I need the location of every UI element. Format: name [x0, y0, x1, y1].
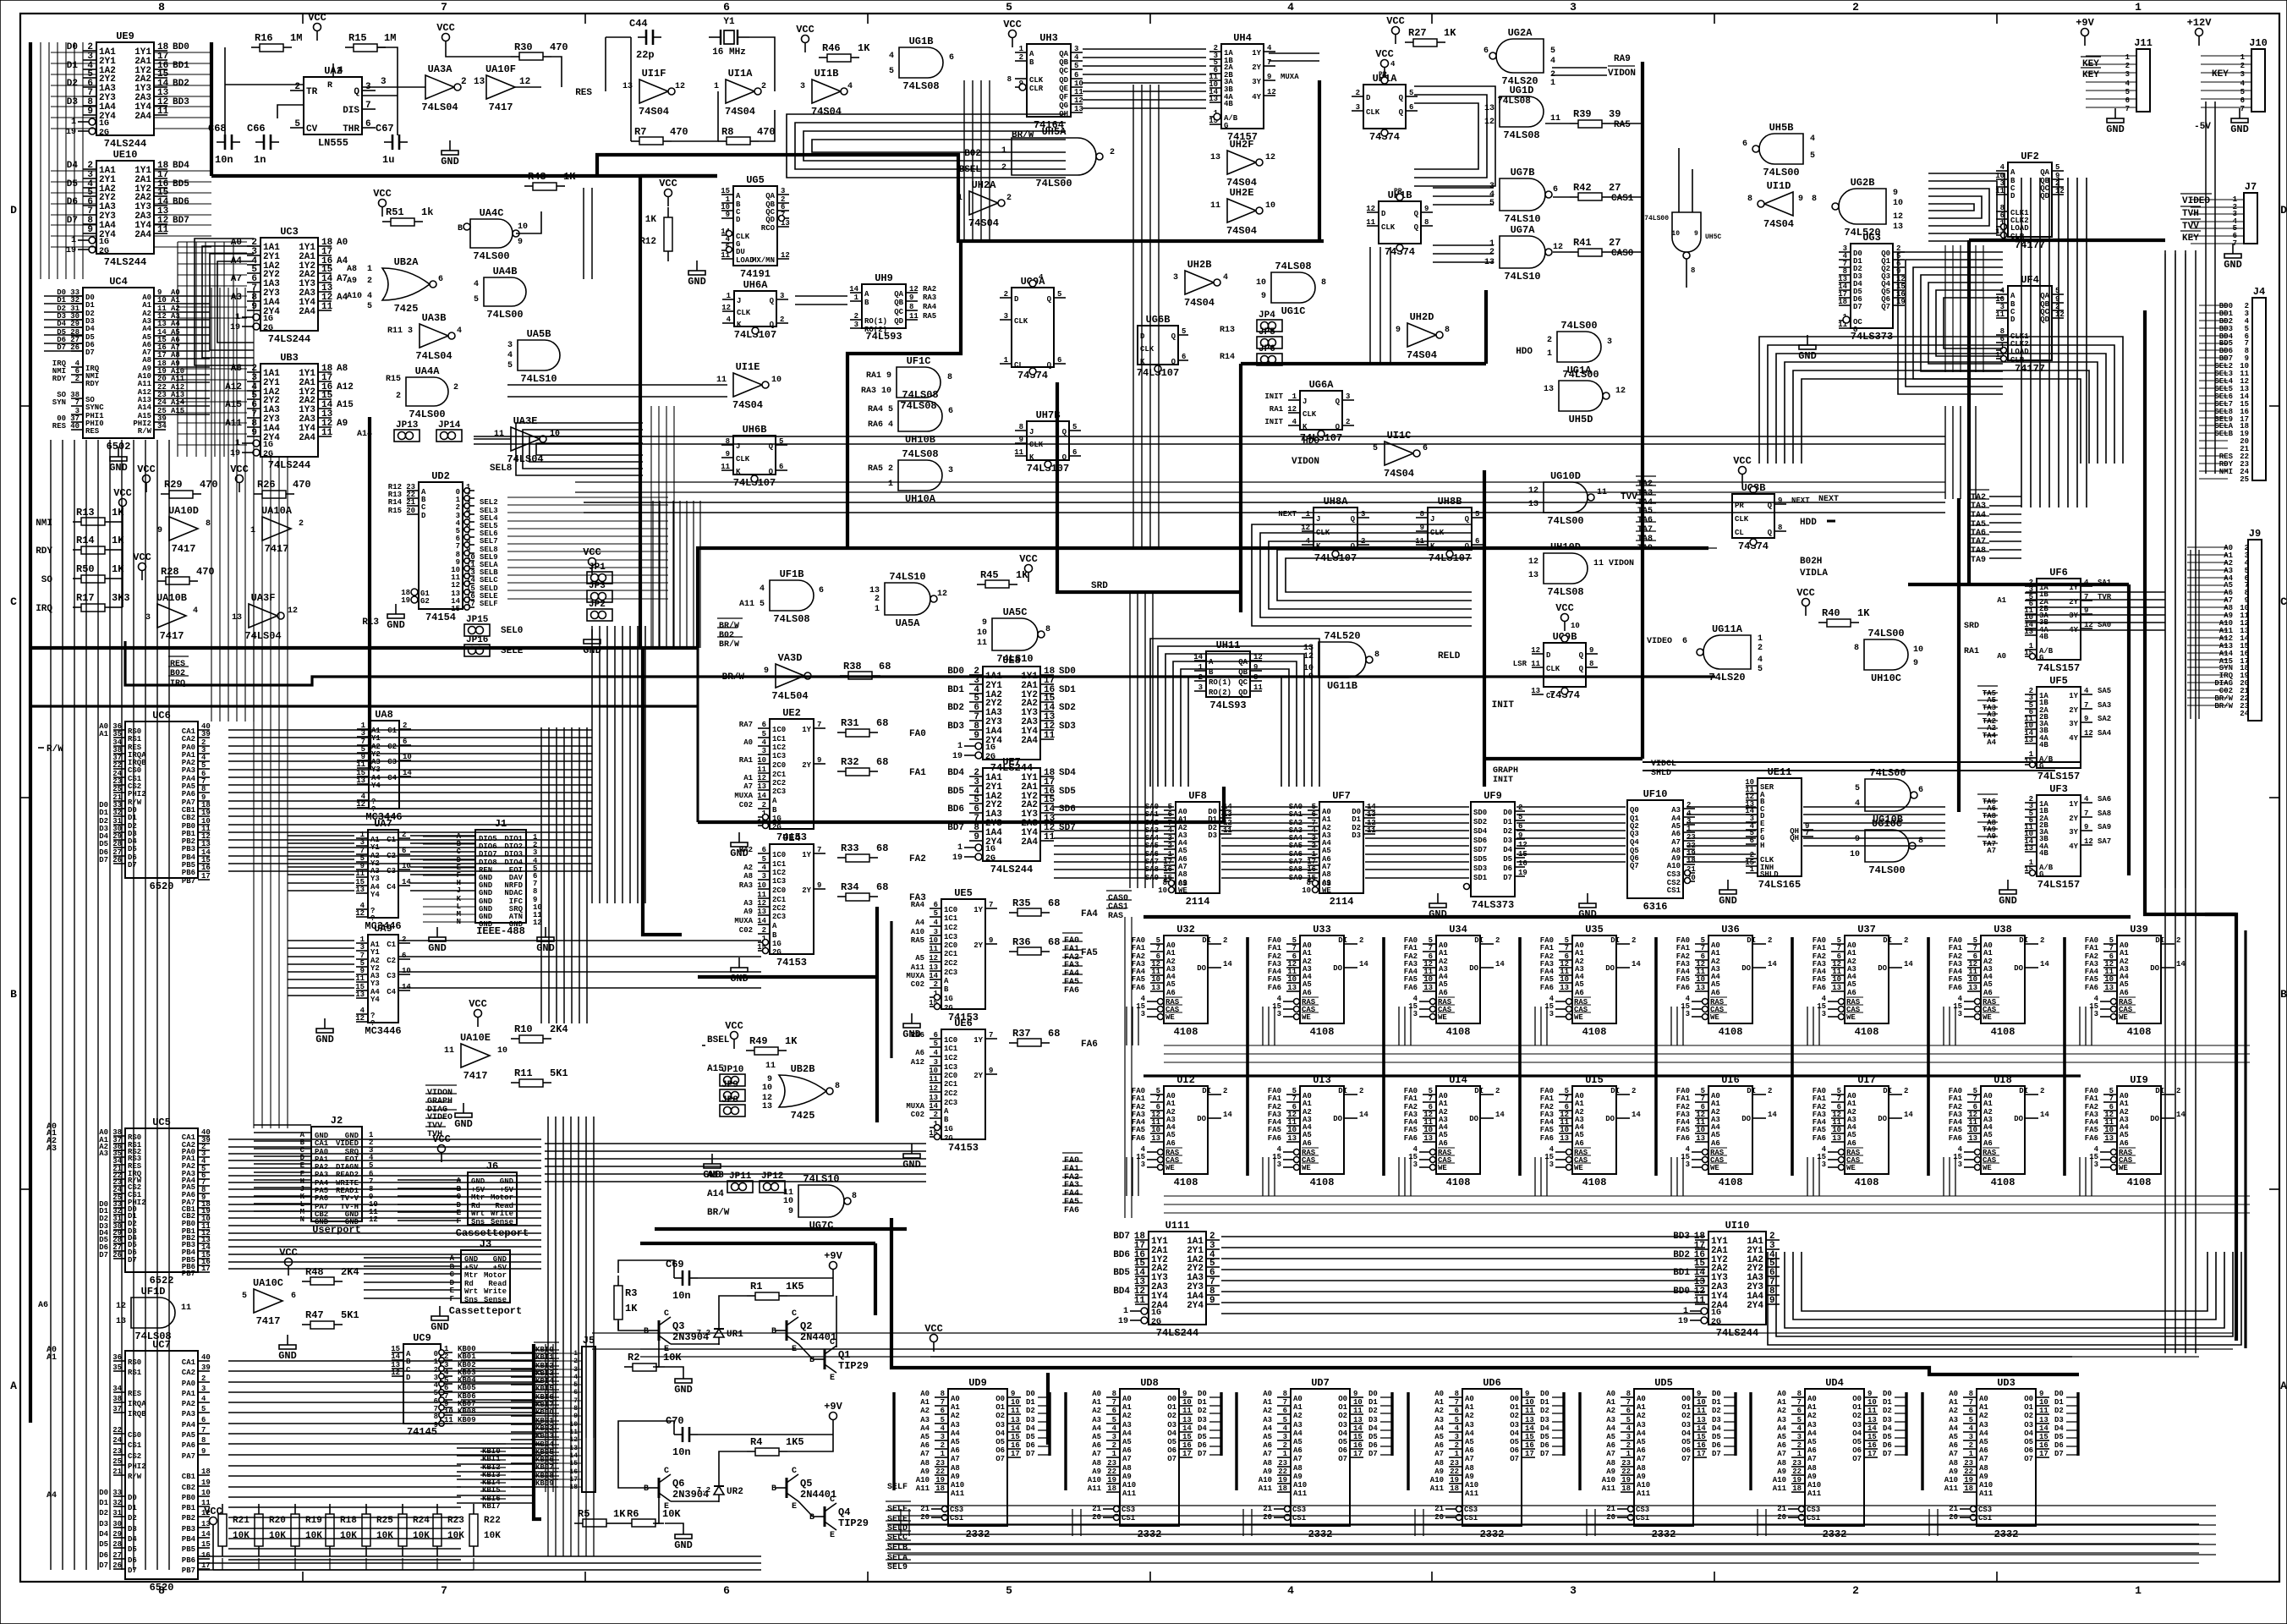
svg-text:6: 6 — [941, 1407, 945, 1415]
gate UA10B 7417 — [145, 592, 198, 642]
svg-text:UR1: UR1 — [727, 1330, 743, 1340]
svg-text:13: 13 — [1151, 984, 1160, 992]
svg-text:22p: 22p — [636, 49, 655, 61]
svg-text:74LS00: 74LS00 — [1547, 515, 1583, 527]
svg-text:4Y: 4Y — [1252, 93, 1261, 101]
svg-text:R37: R37 — [1012, 1028, 1031, 1040]
svg-text:RA4: RA4 — [911, 901, 925, 909]
svg-text:10K: 10K — [305, 1531, 322, 1541]
resistor R45 1K — [977, 553, 1108, 591]
svg-text:+9V: +9V — [824, 1401, 842, 1413]
IC UH8B 74LS107 — [1415, 496, 1484, 564]
svg-text:TV-V: TV-V — [340, 1194, 359, 1203]
svg-text:1C1: 1C1 — [944, 1045, 958, 1053]
svg-text:UE6: UE6 — [954, 1018, 973, 1029]
connector J11 keyboard — [2076, 17, 2153, 135]
svg-text:BD7: BD7 — [173, 216, 189, 226]
svg-text:B: B — [944, 1116, 949, 1124]
svg-text:11: 11 — [757, 891, 766, 899]
bus thick j4 bd — [2143, 310, 2147, 888]
svg-text:2G: 2G — [99, 247, 109, 256]
svg-text:SD4: SD4 — [1059, 768, 1076, 778]
svg-text:D2: D2 — [67, 79, 78, 89]
svg-text:UF6: UF6 — [2049, 567, 2068, 579]
svg-text:PHI2: PHI2 — [128, 1462, 146, 1471]
jumpers JP1 JP3 JP2 — [583, 546, 612, 656]
gate UG10C 74LS00 NAND — [1850, 818, 1923, 876]
wire mesh UD2-SEL jumpers — [516, 423, 700, 648]
wire UE9 inputs — [51, 52, 96, 247]
svg-text:5: 5 — [2240, 88, 2245, 96]
svg-text:11: 11 — [494, 430, 504, 439]
svg-text:7: 7 — [1837, 944, 1841, 952]
svg-text:39: 39 — [201, 730, 211, 738]
svg-text:74S04: 74S04 — [725, 106, 755, 118]
svg-text:5: 5 — [941, 1416, 945, 1424]
svg-text:2C1: 2C1 — [944, 950, 958, 958]
svg-text:25: 25 — [112, 785, 122, 793]
svg-text:UE8: UE8 — [1002, 655, 1021, 667]
svg-text:6: 6 — [444, 1384, 448, 1392]
svg-text:2A4: 2A4 — [299, 307, 315, 317]
IC UE9 74LS244 buffer — [66, 30, 189, 150]
jumper JP5 — [1257, 327, 1282, 348]
svg-text:3: 3 — [201, 1385, 206, 1393]
svg-text:9: 9 — [989, 1067, 993, 1075]
svg-text:8: 8 — [1691, 266, 1695, 275]
svg-text:UH5B: UH5B — [1769, 122, 1794, 134]
svg-text:1C3: 1C3 — [944, 933, 957, 941]
connector J1 IEEE-488 — [423, 818, 555, 954]
svg-text:UC6: UC6 — [152, 710, 171, 721]
bus thick RES trunk — [597, 155, 1324, 241]
svg-text:2: 2 — [2040, 1087, 2044, 1095]
svg-text:74LS10: 74LS10 — [889, 571, 925, 583]
transistor Q2 2N4401 — [771, 1309, 836, 1354]
svg-text:A15: A15 — [337, 400, 354, 410]
svg-text:4108: 4108 — [1582, 1026, 1607, 1038]
gate UF1D 74LS08 AND — [116, 1286, 191, 1342]
IC U35 4108 DRAM — [1540, 924, 1642, 1038]
svg-text:A13: A13 — [707, 1171, 724, 1181]
wire vcc-r30 — [446, 51, 562, 87]
svg-text:11: 11 — [355, 974, 365, 983]
svg-text:GND: GND — [278, 1350, 297, 1362]
wire j9 left risers — [2191, 550, 2199, 719]
svg-text:FA6: FA6 — [1813, 1134, 1826, 1143]
svg-text:D0: D0 — [128, 1494, 137, 1502]
svg-text:74LS00: 74LS00 — [1562, 369, 1599, 381]
svg-text:14: 14 — [1632, 1111, 1641, 1119]
svg-text:TA7: TA7 — [1637, 525, 1653, 535]
svg-text:13: 13 — [1531, 687, 1540, 695]
svg-text:CAS1: CAS1 — [1108, 903, 1128, 912]
svg-text:7: 7 — [441, 1, 447, 14]
svg-text:1: 1 — [235, 439, 240, 448]
svg-text:10: 10 — [929, 1067, 938, 1075]
svg-text:CLK: CLK — [1546, 665, 1560, 673]
svg-text:VA3D: VA3D — [778, 652, 803, 664]
svg-text:10: 10 — [1968, 975, 1977, 984]
svg-text:13: 13 — [1074, 105, 1083, 113]
svg-text:C: C — [792, 1467, 797, 1476]
svg-text:SRD: SRD — [1091, 581, 1108, 591]
svg-text:4: 4 — [1810, 134, 1815, 144]
svg-text:18: 18 — [201, 1468, 211, 1476]
svg-text:PB6: PB6 — [182, 869, 195, 877]
svg-text:TA3: TA3 — [1637, 489, 1653, 498]
svg-text:UD2: UD2 — [431, 470, 450, 482]
label R13 R14 jp — [1220, 326, 1235, 362]
wire fan UC6 to UA7/UA9 — [288, 727, 587, 1023]
svg-text:A15: A15 — [707, 1064, 724, 1074]
IC UG6B 74LS107 — [1137, 314, 1188, 379]
svg-text:WE: WE — [2119, 1164, 2128, 1172]
svg-text:U39: U39 — [2130, 924, 2148, 935]
svg-text:Q: Q — [1335, 423, 1341, 431]
svg-text:A6: A6 — [1847, 1139, 1856, 1148]
svg-text:9: 9 — [788, 1207, 793, 1216]
svg-text:PB7: PB7 — [182, 1270, 195, 1278]
svg-text:C66: C66 — [247, 123, 266, 134]
svg-text:6: 6 — [1072, 448, 1077, 457]
svg-text:2: 2 — [1632, 1087, 1636, 1095]
svg-text:MUXA: MUXA — [906, 1102, 924, 1111]
svg-text:10: 10 — [1302, 886, 1311, 895]
svg-text:14: 14 — [1632, 960, 1641, 968]
jumper JP13 — [394, 420, 420, 442]
svg-text:TA7: TA7 — [1971, 537, 1986, 546]
svg-text:2G: 2G — [985, 854, 995, 864]
svg-text:13: 13 — [1560, 1134, 1569, 1143]
svg-text:3: 3 — [1549, 1010, 1554, 1018]
svg-text:7425: 7425 — [394, 303, 419, 315]
svg-text:74LS04: 74LS04 — [421, 101, 458, 113]
svg-text:27: 27 — [1609, 237, 1621, 249]
IC UD4 2332 ROM — [1751, 1377, 1906, 1540]
svg-text:1C1: 1C1 — [944, 914, 958, 923]
resistor R24 10K — [398, 1504, 430, 1556]
gate UI1D 74S04 inverter — [1747, 180, 1817, 230]
svg-text:1C3: 1C3 — [944, 1063, 957, 1072]
svg-text:D: D — [10, 204, 17, 217]
svg-text:QC: QC — [1238, 678, 1248, 687]
svg-text:G: G — [1224, 122, 1228, 130]
svg-text:KB05: KB05 — [458, 1384, 476, 1392]
svg-text:A: A — [2010, 292, 2016, 300]
svg-text:UC4: UC4 — [109, 276, 128, 288]
svg-text:FA5: FA5 — [1949, 975, 1962, 984]
svg-text:A5: A5 — [2120, 1131, 2129, 1139]
svg-text:10: 10 — [757, 756, 766, 765]
svg-text:DO: DO — [1197, 964, 1206, 973]
svg-text:3: 3 — [854, 321, 858, 329]
svg-text:WE: WE — [1178, 886, 1187, 895]
svg-text:J9: J9 — [2249, 528, 2261, 540]
svg-text:WE: WE — [1438, 1164, 1447, 1172]
svg-text:1G: 1G — [99, 238, 109, 247]
svg-text:PB7: PB7 — [182, 877, 195, 886]
svg-text:11: 11 — [157, 107, 169, 117]
svg-text:R3: R3 — [625, 1287, 637, 1299]
svg-text:9: 9 — [1253, 663, 1258, 672]
svg-text:SD5: SD5 — [1473, 855, 1487, 864]
svg-text:GND: GND — [500, 1177, 514, 1186]
svg-text:12: 12 — [451, 581, 460, 590]
crystal Y1 16MHz — [709, 17, 749, 58]
svg-text:SA5: SA5 — [2098, 687, 2111, 695]
svg-text:D0: D0 — [67, 42, 78, 52]
svg-text:23: 23 — [935, 1459, 945, 1468]
svg-text:74LS08: 74LS08 — [1497, 96, 1531, 107]
svg-text:13: 13 — [929, 963, 938, 972]
svg-text:J11: J11 — [2134, 37, 2153, 49]
svg-text:9: 9 — [1261, 292, 1266, 301]
labels BR/W B02 stack — [717, 618, 743, 650]
svg-text:2: 2 — [1359, 936, 1363, 945]
svg-text:Q0: Q0 — [1630, 806, 1639, 815]
wire bottom sel horizontals — [887, 1524, 2199, 1563]
svg-text:3: 3 — [1822, 1160, 1826, 1169]
svg-text:40: 40 — [201, 1353, 211, 1362]
svg-text:PR: PR — [1379, 71, 1387, 79]
svg-text:?: ? — [370, 1019, 375, 1028]
svg-text:A1: A1 — [920, 1398, 930, 1407]
svg-text:1: 1 — [434, 1358, 439, 1366]
labels A0-A3 left — [38, 1122, 57, 1501]
svg-text:UG7B: UG7B — [1511, 167, 1535, 178]
svg-text:VCC: VCC — [279, 1247, 298, 1259]
svg-text:4: 4 — [1074, 53, 1079, 62]
svg-text:RA2: RA2 — [923, 285, 936, 294]
svg-text:UG11B: UG11B — [1327, 680, 1357, 692]
wire 555 loop — [225, 47, 304, 142]
svg-text:UA5C: UA5C — [1003, 606, 1028, 618]
svg-text:74LS00: 74LS00 — [1763, 167, 1799, 178]
svg-text:5: 5 — [934, 1040, 938, 1048]
labels KBI right — [480, 1444, 506, 1511]
svg-text:40: 40 — [70, 422, 80, 431]
svg-text:BD2: BD2 — [947, 703, 964, 713]
svg-text:10K: 10K — [376, 1531, 393, 1541]
svg-text:3: 3 — [2094, 1160, 2098, 1169]
svg-text:K: K — [736, 468, 741, 476]
svg-text:74S04: 74S04 — [639, 106, 669, 118]
svg-text:4: 4 — [457, 326, 462, 336]
svg-text:D1: D1 — [128, 814, 137, 822]
svg-text:74LS244: 74LS244 — [268, 459, 310, 471]
svg-text:4Y: 4Y — [2069, 842, 2078, 851]
gate UI1A 74S04 inverter — [714, 68, 766, 118]
svg-text:A0: A0 — [337, 238, 348, 248]
labels UF5 inputs — [1977, 686, 1998, 747]
svg-text:LOAD: LOAD — [2010, 348, 2029, 356]
svg-text:1u: 1u — [382, 154, 394, 166]
connector J4 expansion — [2199, 286, 2266, 484]
svg-text:A5: A5 — [1983, 1131, 1993, 1139]
svg-text:14: 14 — [1904, 960, 1913, 968]
svg-text:DO: DO — [1469, 1115, 1478, 1123]
svg-text:SD0: SD0 — [1473, 809, 1487, 817]
svg-text:R4: R4 — [750, 1436, 762, 1448]
svg-text:VCC: VCC — [1386, 15, 1405, 27]
svg-text:A6: A6 — [1847, 989, 1856, 997]
svg-text:3: 3 — [1277, 1010, 1281, 1018]
svg-text:R2: R2 — [628, 1352, 639, 1363]
svg-text:RA4: RA4 — [923, 303, 937, 311]
gate UH2B 74S04 inverter — [1173, 259, 1228, 309]
svg-text:1: 1 — [888, 480, 893, 489]
svg-text:CL: CL — [1735, 529, 1744, 537]
svg-text:D4: D4 — [67, 161, 79, 171]
svg-text:D: D — [2010, 315, 2016, 324]
svg-text:D4: D4 — [85, 325, 95, 333]
svg-text:15: 15 — [721, 187, 730, 195]
svg-text:19: 19 — [201, 809, 211, 817]
svg-text:A3: A3 — [951, 1421, 960, 1429]
svg-text:14: 14 — [402, 983, 411, 991]
svg-text:5: 5 — [474, 295, 479, 304]
IC UD9 2332 ROM — [894, 1377, 1050, 1540]
svg-text:28: 28 — [112, 1540, 122, 1549]
IC UG6A 74LS107 — [1264, 379, 1354, 444]
svg-text:A5: A5 — [915, 954, 924, 963]
svg-text:TIP29: TIP29 — [838, 1360, 869, 1372]
resistor R46 1K — [819, 42, 870, 62]
svg-text:R7: R7 — [634, 126, 646, 138]
svg-text:LOAD: LOAD — [2010, 224, 2029, 233]
svg-text:4B: 4B — [2039, 849, 2048, 858]
svg-text:QD: QD — [1059, 76, 1068, 85]
svg-text:3: 3 — [1346, 392, 1350, 401]
svg-text:UA3E: UA3E — [513, 415, 538, 427]
svg-text:1K: 1K — [613, 1508, 626, 1520]
svg-text:UA10D: UA10D — [168, 505, 199, 517]
svg-text:UG1C: UG1C — [1281, 305, 1306, 317]
svg-text:8: 8 — [201, 785, 206, 793]
svg-text:5: 5 — [1409, 89, 1413, 97]
svg-text:FA1: FA1 — [1676, 944, 1691, 952]
svg-text:7417: 7417 — [463, 1070, 488, 1082]
svg-text:16: 16 — [201, 1551, 211, 1560]
svg-text:+9V: +9V — [824, 1250, 842, 1262]
svg-text:A3: A3 — [47, 1144, 57, 1154]
svg-text:14: 14 — [929, 972, 938, 980]
svg-text:68: 68 — [876, 842, 888, 854]
IC UF5 74LS157 mux — [2024, 675, 2112, 782]
svg-text:U37: U37 — [1857, 924, 1876, 935]
svg-text:KEY: KEY — [2082, 70, 2099, 80]
IC UA8 MC3446 — [356, 709, 412, 823]
svg-text:UE4: UE4 — [782, 832, 801, 844]
svg-text:2Y: 2Y — [1252, 63, 1261, 72]
svg-text:INIT: INIT — [1264, 418, 1283, 426]
svg-text:RS1: RS1 — [128, 1369, 142, 1377]
svg-text:A5: A5 — [1439, 980, 1448, 989]
svg-text:68: 68 — [876, 756, 888, 768]
svg-text:D1: D1 — [1503, 818, 1512, 826]
labels UF3 inputs — [1977, 794, 1998, 855]
resistor R19 10K — [291, 1504, 322, 1556]
svg-text:A3: A3 — [1671, 806, 1681, 815]
svg-text:FA1: FA1 — [1132, 944, 1146, 952]
svg-text:2C1: 2C1 — [772, 896, 787, 904]
svg-text:17: 17 — [201, 872, 211, 881]
svg-text:74LS244: 74LS244 — [104, 138, 146, 150]
svg-text:DI: DI — [2019, 936, 2028, 945]
resistor R51 1k — [373, 188, 433, 226]
svg-text:3: 3 — [762, 747, 766, 755]
svg-text:DI: DI — [1610, 936, 1620, 945]
IC UE8 74LS244 — [947, 655, 1076, 774]
svg-text:11: 11 — [181, 1303, 191, 1313]
svg-text:13: 13 — [1287, 984, 1297, 992]
svg-text:UG6B: UG6B — [1146, 314, 1171, 326]
svg-text:JP12: JP12 — [761, 1171, 783, 1182]
svg-text:HDO: HDO — [1303, 436, 1319, 447]
svg-text:7: 7 — [2084, 809, 2088, 818]
svg-text:9: 9 — [2084, 823, 2088, 831]
svg-text:UA4B: UA4B — [493, 266, 518, 277]
svg-text:7: 7 — [1429, 944, 1433, 952]
svg-text:FA6: FA6 — [1081, 1040, 1098, 1050]
gate UA5C 74LS10 NAND — [977, 606, 1050, 665]
svg-text:DO: DO — [1741, 1115, 1751, 1123]
svg-text:10: 10 — [444, 1407, 453, 1416]
svg-text:1: 1 — [1758, 634, 1763, 644]
svg-text:GND: GND — [387, 619, 405, 631]
svg-text:R11: R11 — [514, 1067, 533, 1079]
svg-text:R14: R14 — [1220, 353, 1235, 362]
svg-text:470: 470 — [757, 126, 776, 138]
svg-text:D: D — [1366, 94, 1371, 102]
svg-text:FA6: FA6 — [1064, 1206, 1079, 1215]
svg-text:13: 13 — [1560, 984, 1569, 992]
svg-text:CB2: CB2 — [182, 1484, 195, 1492]
wire rom area horizontals3 — [930, 1356, 2072, 1358]
svg-text:5: 5 — [1072, 423, 1077, 431]
svg-text:MUXA: MUXA — [734, 917, 753, 925]
svg-text:UA10C: UA10C — [253, 1277, 283, 1289]
svg-text:11: 11 — [1253, 683, 1263, 692]
svg-text:19: 19 — [401, 596, 410, 605]
svg-text:17: 17 — [157, 351, 167, 359]
svg-text:CL: CL — [1546, 692, 1555, 700]
svg-text:QC: QC — [894, 308, 903, 316]
svg-text:JP9: JP9 — [721, 1080, 738, 1090]
svg-text:RA6: RA6 — [911, 1031, 924, 1040]
capacitor C44 22p — [629, 18, 661, 61]
svg-text:BD2: BD2 — [173, 79, 189, 89]
svg-text:13: 13 — [116, 1317, 126, 1326]
svg-text:VIDON: VIDON — [1608, 69, 1636, 79]
svg-text:A11 5: A11 5 — [739, 600, 765, 609]
svg-text:RES: RES — [128, 1390, 142, 1398]
svg-text:A6: A6 — [1303, 989, 1312, 997]
svg-text:DU: DU — [736, 248, 745, 256]
svg-text:10n: 10n — [672, 1290, 691, 1302]
svg-text:10K: 10K — [663, 1352, 682, 1363]
svg-text:R15: R15 — [386, 375, 401, 384]
svg-text:1: 1 — [714, 82, 719, 91]
gate UH10C 74LS00 AND — [1854, 628, 1923, 684]
svg-text:SD7: SD7 — [1059, 823, 1076, 833]
svg-text:10: 10 — [1913, 645, 1923, 655]
connector J6 cassette 1 — [432, 1133, 529, 1239]
svg-text:A6: A6 — [1303, 1139, 1312, 1148]
svg-text:2: 2 — [2176, 936, 2180, 945]
IC UH11 74LS93 counter — [1193, 639, 1263, 711]
